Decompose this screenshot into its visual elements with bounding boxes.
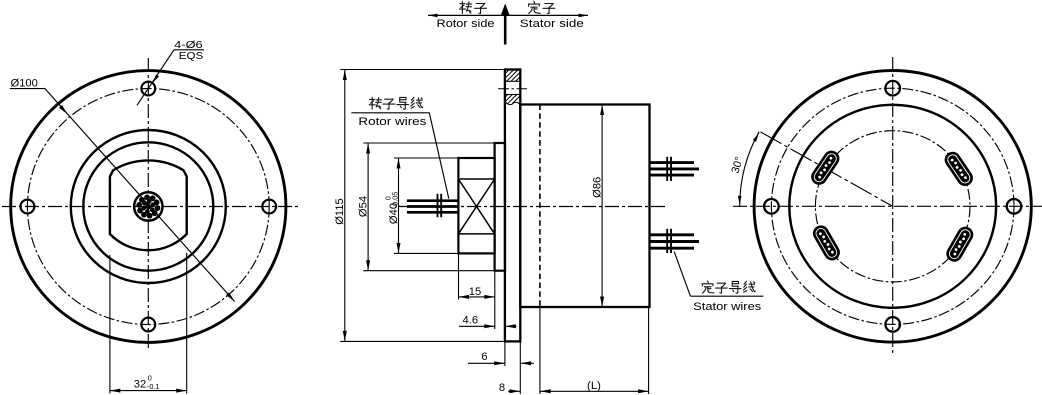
svg-text:(L): (L): [587, 380, 601, 392]
svg-text:32: 32: [134, 378, 146, 390]
svg-text:-0.1: -0.1: [147, 382, 160, 391]
svg-text:Ø86: Ø86: [592, 177, 604, 198]
svg-text:Stator wires: Stator wires: [693, 301, 761, 313]
svg-text:Ø115: Ø115: [334, 198, 346, 225]
svg-text:Ø100: Ø100: [11, 78, 38, 90]
svg-text:-0.05: -0.05: [391, 192, 400, 209]
svg-text:4.6: 4.6: [463, 314, 479, 326]
svg-text:6: 6: [481, 351, 487, 363]
svg-text:Stator side: Stator side: [520, 18, 584, 30]
svg-text:Ø54: Ø54: [358, 196, 370, 217]
svg-text:8: 8: [499, 382, 505, 394]
svg-text:EQS: EQS: [179, 51, 204, 62]
svg-text:Rotor wires: Rotor wires: [358, 116, 426, 128]
svg-text:Rotor side: Rotor side: [437, 18, 495, 30]
svg-text:15: 15: [469, 286, 481, 298]
